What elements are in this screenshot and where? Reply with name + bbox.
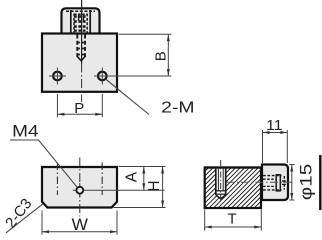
- border artifact right: [319, 155, 321, 210]
- hidden screw top edge: [74, 13, 87, 15]
- leader 2-M: [106, 79, 149, 114]
- M4 hole horizontal extension / center mark: [73, 189, 165, 191]
- svg-text:P: P: [74, 100, 84, 117]
- slot center line: [220, 160, 222, 203]
- H bottom extension line: [114, 207, 166, 209]
- M4 hole vertical center mark: [79, 183, 81, 198]
- hole right (2-M): [98, 72, 107, 81]
- tapped hole slot in section: [216, 167, 226, 195]
- hidden screw hex socket left wall: [78, 14, 80, 21]
- dimension 11 line: [263, 132, 288, 134]
- svg-text:B: B: [153, 51, 170, 61]
- dimension W line: [42, 231, 117, 233]
- svg-text:2-M: 2-M: [161, 100, 194, 117]
- knob / cylinder boss top view: [62, 8, 100, 33]
- dimension B extension line top: [119, 33, 172, 35]
- hole center line left (hidden): [56, 163, 58, 196]
- dimension W extension lines: [41, 211, 43, 235]
- leader 2-C3: [6, 204, 43, 233]
- vertical center line of top view: [81, 0, 83, 64]
- hidden tapped hole below knob: left wall: [76, 35, 78, 58]
- hidden screw in knob: left thread wall: [73, 14, 75, 34]
- dimension P line: [57, 113, 102, 115]
- svg-text:W: W: [72, 216, 89, 234]
- dimension T extension lines: [204, 210, 206, 231]
- knob inner top hidden dash row: [66, 10, 95, 12]
- hidden screw thread rows: [74, 15, 87, 17]
- screw tip marks: [282, 180, 286, 182]
- sectioned block: [205, 168, 261, 209]
- thread end lines in slot: [216, 190, 226, 192]
- svg-text:φ15: φ15: [297, 164, 315, 200]
- hidden set screw: bottom edge: [263, 189, 282, 191]
- hole right center marks: [101, 68, 103, 85]
- knob inner bore line right: [89, 10, 91, 34]
- dimension B line: [167, 34, 169, 76]
- hidden screw in knob: right thread wall: [86, 14, 88, 34]
- hex socket caps: [276, 174, 281, 176]
- front view vertical center line: [79, 158, 81, 217]
- hole left center marks: [49, 75, 66, 77]
- svg-text:11: 11: [266, 117, 282, 134]
- hidden set screw in boss: top edge: [263, 175, 282, 177]
- hidden tapped hole: right wall: [84, 35, 86, 58]
- dimension P extension lines: [56, 94, 58, 117]
- screw right end: [283, 176, 285, 190]
- knob inner bore line left: [70, 10, 72, 34]
- top edge of section block redrawn: [205, 166, 261, 168]
- dimension phi15 line: [291, 165, 293, 201]
- M4 tapped hole: [76, 187, 83, 194]
- boss cylinder phi15: [262, 165, 288, 201]
- svg-text:A: A: [123, 171, 140, 182]
- hidden set screw: inner top: [263, 178, 276, 180]
- svg-text:M4: M4: [12, 123, 38, 141]
- hidden hole drill point: [77, 57, 85, 61]
- front view outline with chamfers: [42, 167, 117, 208]
- thread minor diameter lines in slot: [217, 168, 219, 191]
- hex socket white interior: [79, 15, 82, 19]
- hole center line right (hidden): [101, 163, 103, 196]
- hidden set screw: inner bottom: [263, 185, 276, 187]
- M4 leader: [10, 140, 77, 187]
- svg-text:H: H: [146, 180, 163, 191]
- hole left (2-M): [53, 72, 62, 81]
- hidden hole thread rungs: [77, 42, 85, 44]
- dimension T line: [205, 226, 262, 228]
- dimension 11 extension lines: [262, 130, 264, 163]
- boss horizontal center line: [227, 181, 294, 183]
- dimension H line: [162, 167, 164, 208]
- dimension phi15 extension lines: [289, 164, 294, 166]
- main block top view: [42, 34, 117, 92]
- svg-text:T: T: [228, 211, 237, 228]
- dimension A line: [143, 167, 145, 191]
- A/H top extension line: [119, 166, 166, 168]
- hidden screw hex socket right wall: [82, 14, 84, 21]
- hex socket walls: [275, 175, 277, 192]
